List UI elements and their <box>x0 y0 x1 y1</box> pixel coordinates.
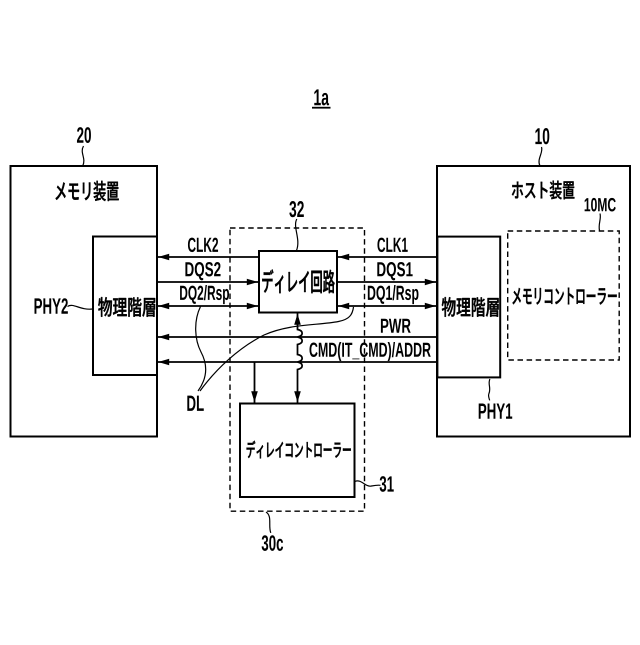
block: host device 10 <box>437 166 630 437</box>
ref numeral 20 <box>77 127 91 143</box>
ref numeral 31 <box>380 476 394 492</box>
ref numeral 32 <box>289 201 303 217</box>
label: memory device text <box>56 181 119 201</box>
wire DQS1 (delay circuit to host PHY) <box>337 281 437 283</box>
wire delay circuit to delay controller (vertical with crossover bumps) <box>298 313 303 404</box>
leader 10 <box>539 147 542 166</box>
leader DL to DQ1/Rsp line <box>200 307 354 391</box>
net label CMD(IT_CMD)/ADDR <box>309 342 430 361</box>
ref numeral PHY1 <box>479 404 513 419</box>
arrowhead DQS1 at host PHY <box>425 279 436 286</box>
leader 32 <box>296 219 298 251</box>
title underline <box>312 107 331 109</box>
label: delay controller text <box>247 441 351 459</box>
wire PWR (host PHY to memory PHY) <box>157 336 437 338</box>
leader 20 <box>82 146 84 166</box>
net label DQ2/Rsp <box>180 285 229 304</box>
ref label DL <box>187 396 203 411</box>
arrowhead DQS2 at delay circuit <box>247 279 258 286</box>
leader 31 <box>355 481 381 486</box>
block: memory controller 10MC (dashed) <box>508 231 620 360</box>
wire CLK1 (host PHY to delay circuit) <box>337 256 437 258</box>
label: physical layer text (PHY2) <box>98 297 155 317</box>
label: host device text <box>512 181 575 200</box>
leader PHY1 <box>489 379 490 400</box>
arrowhead up into delay circuit <box>294 314 301 325</box>
title 1a <box>314 89 329 105</box>
arrowhead CLK1 at delay circuit <box>338 254 349 261</box>
net label DQS2 <box>185 262 220 280</box>
leader DL to DQ2/Rsp line <box>196 307 206 392</box>
leader 30c <box>266 512 271 533</box>
arrowhead PWR left <box>158 334 169 341</box>
ref numeral 10MC <box>585 198 616 212</box>
wire DQ1/Rsp (bidirectional) <box>337 305 437 307</box>
wire CLK2 (delay circuit to memory PHY) <box>157 256 259 258</box>
arrowhead DQ1 right <box>425 303 436 310</box>
wire CMD(IT_CMD)/ADDR (host PHY to memory PHY) <box>157 361 437 363</box>
label: memory controller text <box>512 288 616 305</box>
arrowhead DQ2 left <box>158 303 169 310</box>
wire DQ2/Rsp (bidirectional) <box>157 305 259 307</box>
leader 10MC <box>599 214 600 231</box>
net label CLK1 <box>377 238 407 253</box>
block: delay unit 30c (dashed) <box>230 228 365 511</box>
arrowhead DQ1 left <box>338 303 349 310</box>
label: delay circuit text <box>262 269 334 293</box>
arrowhead DQ2 right <box>247 303 258 310</box>
leader PHY2 <box>68 305 93 309</box>
block: memory PHY2 physical layer <box>93 237 157 376</box>
arrowhead CMD left <box>158 359 169 366</box>
wire DQS2 (memory PHY to delay circuit) <box>157 281 259 283</box>
ref numeral PHY2 <box>35 298 68 314</box>
net label DQ1/Rsp <box>368 285 419 304</box>
wire delay controller to CMD line (vertical) <box>254 362 256 404</box>
arrowhead down into delay controller (right) <box>294 391 301 402</box>
net label DQS1 <box>377 262 412 280</box>
block: delay circuit 32 <box>259 251 337 313</box>
net label PWR <box>381 319 411 333</box>
arrowhead down into delay controller (left) <box>251 391 258 402</box>
ref numeral 10 <box>535 128 549 144</box>
ref numeral 30c <box>262 535 284 551</box>
block: delay controller 31 <box>240 404 355 498</box>
label: physical layer text (PHY1) <box>442 297 499 317</box>
block: memory device 20 <box>11 166 158 437</box>
net label CLK2 <box>188 238 218 253</box>
arrowhead CLK2 left <box>158 254 169 261</box>
block: host PHY1 physical layer <box>437 237 500 378</box>
